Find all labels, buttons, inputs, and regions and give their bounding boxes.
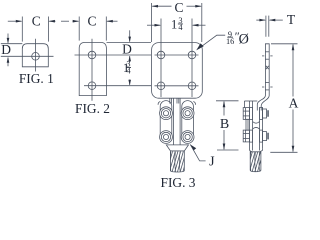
fraction 1-3/4 (stack) (123, 60, 132, 76)
T left arrow (259, 19, 266, 22)
leader J (190, 145, 205, 161)
dimension C (FIG.2) arrow tails (73, 20, 79, 22)
FIG.2 holes vertical centerline (91, 39, 93, 101)
label 9/16" dia (226, 29, 249, 48)
side view bar hole ticks lower (262, 86, 264, 88)
side bolt washers SB2 (250, 130, 253, 142)
arrowheads (7, 5, 295, 152)
C fig2 right arrow (106, 20, 113, 23)
FIG.1 hole H1 (32, 53, 40, 61)
dimension 1-3/4 (stack) arrow tail (129, 80, 131, 85)
bolt B4 (181, 131, 194, 144)
dimension A top extension (271, 43, 298, 45)
svg-text:A: A (289, 95, 299, 110)
svg-text:T: T (287, 12, 296, 27)
dimension A line with gap (292, 45, 294, 97)
dimension 1-3/4 (FIG.3) arrow tails (147, 24, 160, 26)
dimension C (FIG.1) arrow tails (8, 20, 22, 22)
dimension C (FIG.2) extension lines (78, 17, 80, 41)
D stack down arrow (128, 37, 131, 43)
D fig1 up arrow (7, 57, 10, 63)
dimension A bottom extension (270, 151, 297, 153)
FIG.3 upper holes centerline (155, 54, 199, 56)
clamp posts (front) (169, 98, 171, 103)
C fig2 left arrow (73, 20, 80, 23)
clamp top hooks (front) (158, 102, 195, 105)
FIG.3 hole H5 (188, 51, 196, 59)
FIG.2 lower hole centerline extended (84, 85, 151, 87)
clamp left strap (160, 101, 172, 143)
FIG.2 hole H3 (88, 82, 96, 90)
side view T extension lines (265, 16, 267, 37)
FIG.3 hole H6 (157, 82, 165, 90)
side view bar x mark (266, 66, 269, 69)
dimension D (stack) arrow tails (129, 30, 131, 41)
side view bar jog (257, 96, 269, 111)
clamp collar (166, 145, 188, 151)
svg-text:D: D (122, 42, 132, 57)
clamp central bar (173, 98, 175, 145)
dimension C (FIG.3) line with text gap (152, 5, 171, 7)
FIG.1 top-edge extension line (1, 43, 23, 45)
side bolt washers SB1 (250, 108, 253, 120)
svg-text:J: J (209, 154, 215, 169)
A bottom arrow (292, 146, 295, 153)
A top arrow (292, 44, 295, 51)
1-3/4 fig3 left arrow (155, 24, 162, 27)
side clamp waist arcs (253, 122, 260, 130)
svg-text:1: 1 (171, 17, 177, 31)
cable (side) (250, 152, 261, 172)
FIG.3 left holes vertical centerline (160, 19, 162, 98)
side bolt head SB2 (243, 130, 249, 142)
svg-text:C: C (32, 14, 41, 29)
cable strands (side) (247, 151, 267, 172)
dimension B extension lines (216, 100, 239, 102)
side bolt nut/threads SB1 (263, 109, 267, 118)
D fig1 down arrow (7, 38, 10, 44)
dimension D (FIG.1) extension arrows (7, 34, 9, 43)
dimension C (FIG.1) extension line left (21, 17, 23, 42)
C fig1 left arrow (16, 20, 22, 23)
svg-text:D: D (1, 42, 11, 57)
FIG.3 right holes vertical centerline (191, 19, 193, 98)
svg-text:16: 16 (226, 37, 234, 46)
dimension C (FIG.3) extension lines (151, 3, 153, 42)
FIG.1 hole H1 horizontal centerline (1, 55, 54, 57)
svg-text:B: B (220, 117, 229, 132)
side clamp bottom taper (250, 148, 263, 152)
svg-text:FIG. 3: FIG. 3 (161, 175, 196, 189)
FIG.2 plate (79, 42, 106, 95)
FIG.2 upper hole centerline extended (75, 54, 152, 56)
D stack up arrow (128, 56, 131, 62)
bolt B2 (181, 107, 194, 120)
cable (front) (170, 151, 184, 172)
clamp right strap (182, 101, 194, 143)
leader to 9/16 hole (199, 35, 226, 49)
svg-text:Ø: Ø (239, 32, 249, 48)
C fig3 left arrow (152, 5, 159, 8)
side clamp body right lines (259, 107, 261, 150)
dimension B line with gap (223, 102, 225, 116)
fraction 1-3/4 (fig3 top) (171, 16, 183, 32)
svg-text:FIG. 2: FIG. 2 (75, 101, 110, 116)
dimension C (FIG.1) extension line right (47, 17, 49, 42)
FIG.3 plate (152, 43, 203, 99)
T right arrow (269, 19, 276, 22)
bolt B1 (160, 107, 173, 120)
side view bar hole ticks upper (262, 55, 264, 57)
C fig3 right arrow (195, 5, 202, 8)
FIG.3 lower holes centerline (155, 85, 199, 87)
1-3/4 fig3 right arrow (192, 24, 199, 27)
side view T arrow tails (256, 19, 265, 21)
side clamp top edge (244, 100, 257, 102)
svg-text:FIG. 1: FIG. 1 (19, 71, 54, 86)
FIG.3 hole H7 (188, 82, 196, 90)
svg-text:C: C (87, 14, 96, 29)
bolt B3 (160, 131, 173, 144)
side bolt head SB1 (243, 108, 249, 120)
side view bar (265, 44, 269, 96)
B top arrow (223, 101, 226, 108)
FIG.2 hole H2 (88, 51, 96, 59)
FIG.2 top-edge extension line (107, 41, 152, 43)
B bottom arrow (223, 144, 226, 151)
1-3/4 stack down arrow (128, 80, 131, 86)
C fig1 right arrow (48, 20, 55, 23)
dash between C dims (61, 20, 69, 22)
side clamp left column (243, 101, 245, 108)
cable strands (front) (167, 152, 189, 173)
svg-text:C: C (174, 0, 183, 15)
leader 9/16 arrowhead (196, 43, 204, 51)
FIG.3 hole H4 (157, 51, 165, 59)
J leader arrowhead (189, 145, 196, 151)
side bolt nut/threads SB2 (263, 132, 267, 141)
FIG.1 plate (22, 44, 48, 67)
FIG.1 hole H1 vertical centerline (35, 39, 37, 72)
